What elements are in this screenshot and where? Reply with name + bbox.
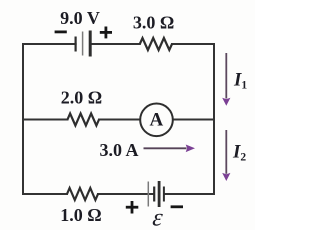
svg-text:3.0 A: 3.0 A bbox=[99, 140, 138, 160]
svg-text:1.0 Ω: 1.0 Ω bbox=[60, 205, 101, 225]
svg-text:A: A bbox=[150, 109, 164, 130]
svg-text:9.0 V: 9.0 V bbox=[60, 8, 100, 28]
svg-text:3.0 Ω: 3.0 Ω bbox=[133, 13, 174, 33]
svg-text:2.0 Ω: 2.0 Ω bbox=[61, 88, 102, 108]
